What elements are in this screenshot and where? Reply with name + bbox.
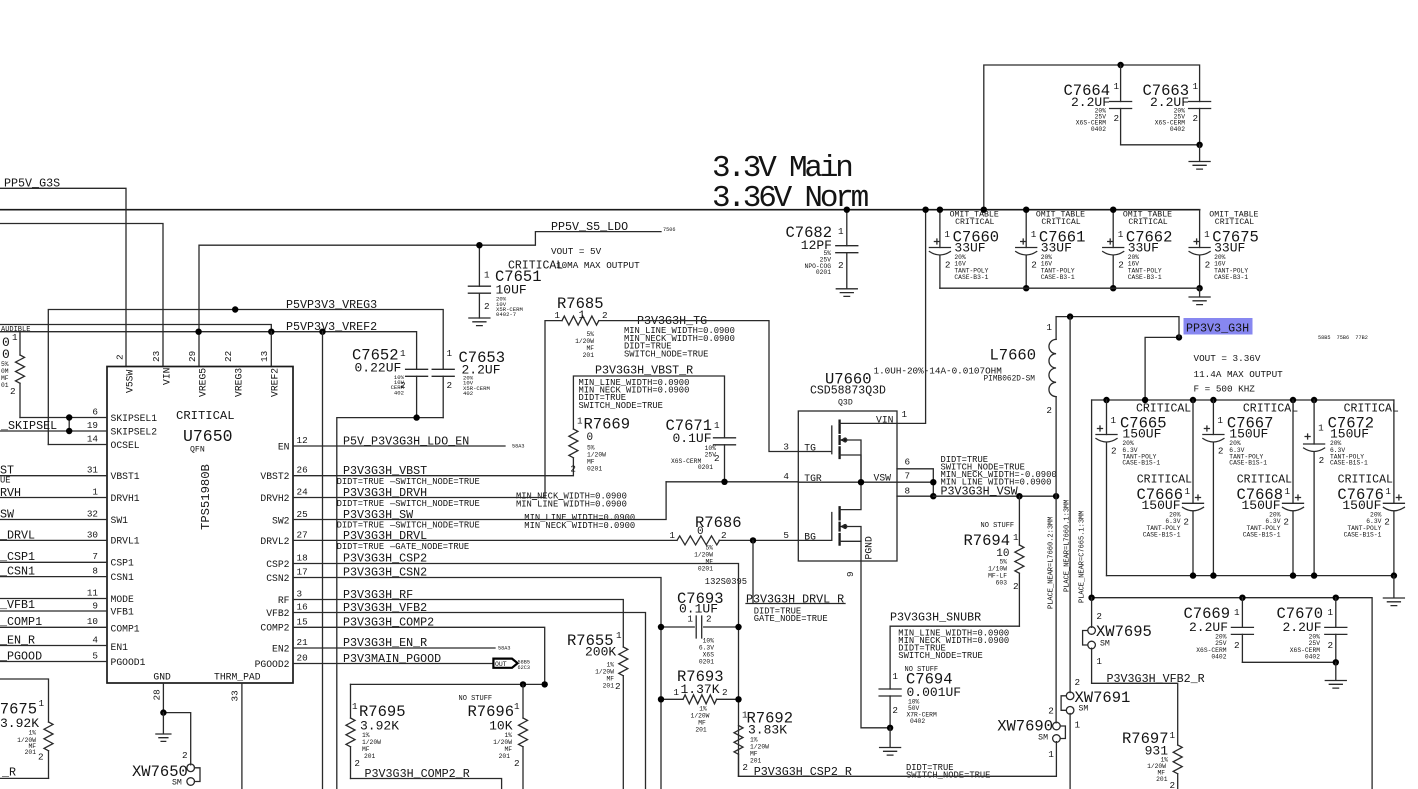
svg-text:CASE-B1S-1: CASE-B1S-1 xyxy=(1143,532,1181,539)
svg-text:MODE: MODE xyxy=(111,594,134,605)
svg-text:2: 2 xyxy=(742,762,748,773)
wire VFB2 row xyxy=(293,613,646,789)
svg-text:PGND: PGND xyxy=(864,536,875,559)
svg-text:1: 1 xyxy=(669,530,675,541)
svg-text:XW7695: XW7695 xyxy=(1096,623,1152,641)
port OUT flag xyxy=(493,659,530,671)
svg-text:GATE_NODE=TRUE: GATE_NODE=TRUE xyxy=(754,614,828,624)
svg-text:CRITICAL: CRITICAL xyxy=(1344,402,1399,415)
svg-text:2: 2 xyxy=(570,464,576,475)
svg-text:NO STUFF: NO STUFF xyxy=(981,522,1015,530)
testpoint XW7695 xyxy=(1083,598,1152,684)
wire SKIPSEL1 row xyxy=(20,417,107,419)
svg-text:1: 1 xyxy=(514,701,520,712)
svg-text:CSD58873Q3D: CSD58873Q3D xyxy=(810,385,886,398)
svg-text:VBST1: VBST1 xyxy=(111,471,140,482)
svg-text:150UF: 150UF xyxy=(1229,426,1268,441)
capacitor C7666 xyxy=(1136,400,1203,576)
svg-text:VIN: VIN xyxy=(162,367,173,385)
svg-text:33: 33 xyxy=(230,690,241,701)
wire C7664/C7663 bottom xyxy=(1121,144,1200,146)
capacitor C7676 xyxy=(1337,400,1404,576)
svg-text:0201: 0201 xyxy=(816,269,831,276)
svg-text:0402: 0402 xyxy=(1305,654,1320,661)
svg-text:150UF: 150UF xyxy=(1330,426,1369,441)
svg-text:1%: 1% xyxy=(606,662,614,669)
svg-text:CRITICAL: CRITICAL xyxy=(1136,402,1191,415)
svg-text:MF: MF xyxy=(606,676,614,683)
svg-text:SWITCH_NODE=TRUE: SWITCH_NODE=TRUE xyxy=(624,349,708,359)
wire skipsel jumper xyxy=(68,418,70,432)
svg-text:8: 8 xyxy=(905,486,911,497)
svg-text:22: 22 xyxy=(223,351,234,362)
svg-text:1: 1 xyxy=(1013,532,1019,543)
svg-text:2: 2 xyxy=(1170,780,1176,789)
svg-text:2: 2 xyxy=(714,453,720,464)
svg-text:NO STUFF: NO STUFF xyxy=(459,695,493,703)
svg-text:MF: MF xyxy=(1,375,9,382)
wire VREF2 riser to IC xyxy=(270,332,272,367)
svg-text:10%: 10% xyxy=(703,638,715,645)
resistor R7675 xyxy=(0,679,53,778)
svg-text:132S0395: 132S0395 xyxy=(705,577,747,587)
svg-text:150UF: 150UF xyxy=(1122,426,1161,441)
svg-text:2: 2 xyxy=(1384,517,1390,528)
wire VSW bracket xyxy=(897,469,933,496)
svg-text:29: 29 xyxy=(187,351,198,362)
svg-text:1: 1 xyxy=(447,348,453,359)
wire main 3.3V rail xyxy=(0,209,1200,211)
wire PGND xyxy=(861,561,890,728)
svg-text:DRVL2: DRVL2 xyxy=(260,536,289,547)
testpoint XW7650 xyxy=(132,750,200,788)
svg-text:2: 2 xyxy=(1193,113,1199,124)
svg-text:2: 2 xyxy=(1111,446,1117,457)
svg-text:P3V3G3H_SNUBR: P3V3G3H_SNUBR xyxy=(890,610,981,624)
svg-text:2: 2 xyxy=(721,530,727,541)
wire CSN2 row xyxy=(293,578,661,789)
svg-text:2: 2 xyxy=(514,758,520,769)
svg-text:11.4A MAX OUTPUT: 11.4A MAX OUTPUT xyxy=(1194,369,1284,380)
wire VBST row xyxy=(293,458,573,476)
svg-text:5%: 5% xyxy=(587,445,595,452)
svg-text:603: 603 xyxy=(996,580,1008,587)
svg-text:X6S-CERM: X6S-CERM xyxy=(671,458,701,465)
svg-text:6.3V: 6.3V xyxy=(699,645,714,652)
ground GND pin xyxy=(156,713,171,742)
testpoint XW7690 xyxy=(997,706,1065,761)
capacitor C7665 xyxy=(1096,400,1191,576)
svg-text:CSP1: CSP1 xyxy=(111,558,134,569)
svg-text:0201: 0201 xyxy=(698,464,713,471)
svg-text:VFB1: VFB1 xyxy=(111,607,134,618)
wire SW row xyxy=(293,482,666,520)
svg-text:1: 1 xyxy=(1170,730,1176,741)
capacitor C7663 xyxy=(1142,81,1210,145)
resistor R7695 xyxy=(346,684,406,778)
svg-text:2: 2 xyxy=(722,687,728,698)
svg-text:1: 1 xyxy=(1217,415,1223,426)
svg-text:CASE-B1S-1: CASE-B1S-1 xyxy=(1330,460,1368,467)
svg-text:7: 7 xyxy=(92,551,98,562)
wire BG row xyxy=(719,539,798,541)
svg-text:SW1: SW1 xyxy=(111,515,129,526)
capacitor C7694 xyxy=(879,666,961,731)
dual MOSFET U7660 CSD58873Q3D xyxy=(783,370,910,577)
wire DRVH row xyxy=(293,497,545,499)
svg-text:32: 32 xyxy=(87,509,98,520)
svg-text:58A3: 58A3 xyxy=(498,646,510,652)
svg-text:1: 1 xyxy=(687,614,693,625)
svg-text:SM: SM xyxy=(1079,705,1089,714)
svg-text:TPS51980B: TPS51980B xyxy=(199,464,213,530)
resistor R7692 xyxy=(734,710,793,777)
svg-text:_VFB1: _VFB1 xyxy=(0,598,35,612)
node PP3V3_G3H xyxy=(1179,318,1368,341)
svg-text:62C3: 62C3 xyxy=(518,665,530,671)
svg-text:CRITICAL: CRITICAL xyxy=(1237,474,1292,487)
svg-text:5: 5 xyxy=(783,530,789,541)
svg-text:0: 0 xyxy=(697,526,704,538)
svg-text:1: 1 xyxy=(12,332,18,343)
svg-text:21: 21 xyxy=(297,637,309,648)
svg-text:COMP1: COMP1 xyxy=(111,623,140,634)
svg-text:1: 1 xyxy=(902,409,908,420)
svg-text:PP3V3_G3H: PP3V3_G3H xyxy=(1186,322,1249,336)
svg-text:CASE-B1S-1: CASE-B1S-1 xyxy=(1229,460,1267,467)
svg-text:0402-7: 0402-7 xyxy=(496,311,516,318)
wire TGR row xyxy=(666,481,798,483)
wire MODE row xyxy=(0,598,107,600)
wire VSW internal xyxy=(798,481,897,483)
svg-text:VBST2: VBST2 xyxy=(260,471,289,482)
svg-text:01: 01 xyxy=(1,382,9,389)
wire PP3V3 top link xyxy=(1056,317,1179,400)
svg-text:PLACE_NEAR=C7665.1:3MM: PLACE_NEAR=C7665.1:3MM xyxy=(1079,511,1087,603)
svg-text:1: 1 xyxy=(1096,656,1102,667)
svg-text:1/20W: 1/20W xyxy=(362,739,381,746)
svg-text:1.37K: 1.37K xyxy=(681,682,720,697)
svg-text:2: 2 xyxy=(484,301,490,312)
testpoint XW7691 xyxy=(1061,677,1130,789)
wire PP5V_S5_LDO xyxy=(199,232,661,367)
svg-text:2: 2 xyxy=(838,260,844,271)
svg-text:2: 2 xyxy=(1118,260,1124,271)
svg-text:1: 1 xyxy=(1185,486,1191,497)
svg-text:PGOOD2: PGOOD2 xyxy=(255,659,290,670)
wire VSW net xyxy=(933,495,1056,497)
svg-text:1: 1 xyxy=(1234,607,1240,618)
svg-text:1: 1 xyxy=(1285,486,1291,497)
svg-text:2: 2 xyxy=(1096,611,1102,622)
svg-text:9: 9 xyxy=(845,571,856,577)
svg-text:201: 201 xyxy=(695,727,707,734)
capacitor C7662 xyxy=(1103,207,1173,292)
wire EN row xyxy=(293,445,505,447)
svg-text:L7660: L7660 xyxy=(990,347,1037,365)
svg-text:—GATE_NODE=TRUE: —GATE_NODE=TRUE xyxy=(389,542,469,552)
svg-text:R7669: R7669 xyxy=(584,416,631,434)
svg-text:CRITICAL: CRITICAL xyxy=(176,409,235,423)
resistor R7685 xyxy=(545,295,608,498)
svg-text:SM: SM xyxy=(1038,734,1048,743)
svg-text:VOUT = 5V: VOUT = 5V xyxy=(551,246,602,257)
svg-text:2: 2 xyxy=(1218,446,1224,457)
capacitor C7667 xyxy=(1203,400,1298,576)
capacitor C7652 xyxy=(352,346,428,417)
wire SKIPSEL2 row xyxy=(0,430,107,432)
capacitor C7672 xyxy=(1304,400,1399,576)
svg-text:VREF2: VREF2 xyxy=(270,368,281,397)
svg-text:1: 1 xyxy=(1118,229,1124,240)
svg-text:0201: 0201 xyxy=(587,466,602,473)
wire CSP2_R xyxy=(739,742,1057,777)
svg-text:CRITICAL: CRITICAL xyxy=(1243,402,1298,415)
svg-text:31: 31 xyxy=(87,465,99,476)
wire DRVL1 row xyxy=(0,539,107,541)
svg-text:2: 2 xyxy=(38,752,44,763)
wire COMP2 network top xyxy=(351,683,545,685)
ground C7694 xyxy=(880,728,901,755)
svg-text:30: 30 xyxy=(87,530,98,541)
svg-text:1: 1 xyxy=(92,487,98,498)
svg-text:27: 27 xyxy=(297,530,308,541)
svg-text:CSN2: CSN2 xyxy=(266,573,289,584)
svg-text:0: 0 xyxy=(587,432,594,444)
svg-text:11: 11 xyxy=(87,588,99,599)
svg-text:SM: SM xyxy=(172,779,182,788)
resistor R7693 xyxy=(658,668,742,734)
svg-text:V5SW: V5SW xyxy=(125,370,136,393)
resistor R7694 xyxy=(964,496,1024,626)
wire C7669/C7670 top xyxy=(1092,598,1373,789)
wire cap bottom bus xyxy=(337,418,443,789)
wire crossnet xyxy=(0,325,271,332)
svg-text:MF: MF xyxy=(587,459,595,466)
svg-text:2: 2 xyxy=(1114,113,1120,124)
svg-text:CRITICAL: CRITICAL xyxy=(1215,218,1254,227)
svg-text:PIMB062D-SM: PIMB062D-SM xyxy=(984,376,1036,384)
svg-text:5%: 5% xyxy=(586,331,594,338)
svg-text:0201: 0201 xyxy=(699,659,714,666)
svg-text:10MA MAX OUTPUT: 10MA MAX OUTPUT xyxy=(556,260,640,271)
svg-text:SKIPSEL2: SKIPSEL2 xyxy=(111,426,158,437)
wire P5VP3V3_VREG3 xyxy=(48,310,443,445)
svg-text:1/20W: 1/20W xyxy=(493,739,512,746)
svg-text:1: 1 xyxy=(616,630,622,641)
svg-text:SWITCH_NODE=TRUE: SWITCH_NODE=TRUE xyxy=(906,771,990,781)
svg-text:1: 1 xyxy=(1075,720,1081,731)
svg-text:CASE-B1S-1: CASE-B1S-1 xyxy=(1122,460,1160,467)
svg-text:2: 2 xyxy=(1205,260,1211,271)
svg-text:1%: 1% xyxy=(28,730,36,737)
svg-text:CASE-B1S-1: CASE-B1S-1 xyxy=(1344,532,1382,539)
svg-text:THRM_PAD: THRM_PAD xyxy=(214,672,261,683)
svg-text:2: 2 xyxy=(447,380,453,391)
svg-text:4: 4 xyxy=(783,471,789,482)
wire CSN1 row xyxy=(0,576,107,578)
ground C7682 xyxy=(836,289,857,297)
svg-text:DRVH2: DRVH2 xyxy=(260,493,289,504)
wire DRVH1 row xyxy=(0,497,107,499)
svg-text:1: 1 xyxy=(1193,81,1199,92)
svg-text:1: 1 xyxy=(673,687,679,698)
svg-text:X6S: X6S xyxy=(703,652,715,659)
capacitor C7664 xyxy=(1063,65,1131,145)
svg-text:1/20W: 1/20W xyxy=(587,452,606,459)
wire GND pin 28 xyxy=(163,683,190,765)
svg-text:1: 1 xyxy=(1048,749,1054,760)
ground 33UF bus xyxy=(1189,288,1210,304)
svg-text:1: 1 xyxy=(579,310,586,322)
svg-text:MF: MF xyxy=(504,746,512,753)
svg-text:PGOOD1: PGOOD1 xyxy=(111,657,146,668)
svg-text:2: 2 xyxy=(1075,677,1081,688)
svg-text:OCSEL: OCSEL xyxy=(111,440,140,451)
svg-text:1%: 1% xyxy=(362,732,370,739)
svg-text:VREG5: VREG5 xyxy=(198,368,209,397)
svg-text:EN1: EN1 xyxy=(111,642,129,653)
svg-text:2: 2 xyxy=(1234,640,1240,651)
resistor R7686 xyxy=(669,514,747,587)
svg-text:CSP2: CSP2 xyxy=(266,559,289,570)
svg-text:PLACE_NEAR=L7660.1:3MM: PLACE_NEAR=L7660.1:3MM xyxy=(1064,500,1072,592)
svg-text:18: 18 xyxy=(297,553,308,564)
svg-text:26: 26 xyxy=(297,465,308,476)
wire COMP2_R xyxy=(351,779,502,789)
svg-text:3: 3 xyxy=(783,442,789,453)
svg-text:EN2: EN2 xyxy=(272,643,290,654)
svg-text:1%: 1% xyxy=(504,732,512,739)
svg-text:1/20W: 1/20W xyxy=(691,713,710,720)
svg-text:1: 1 xyxy=(1385,486,1391,497)
svg-text:DRVH1: DRVH1 xyxy=(111,493,140,504)
svg-text:2: 2 xyxy=(945,260,951,271)
svg-text:2: 2 xyxy=(182,750,188,761)
svg-text:2: 2 xyxy=(1319,455,1325,466)
svg-text:1: 1 xyxy=(1318,423,1324,434)
svg-text:P3V3G3H_DRVL_R: P3V3G3H_DRVL_R xyxy=(746,592,844,606)
svg-text:SM: SM xyxy=(1100,640,1110,649)
svg-text:SWITCH_NODE=TRUE: SWITCH_NODE=TRUE xyxy=(898,651,982,661)
svg-text:58A3: 58A3 xyxy=(512,444,524,450)
wire SW1 row xyxy=(0,519,107,521)
svg-text:1: 1 xyxy=(1031,229,1037,240)
svg-text:201: 201 xyxy=(499,753,511,760)
svg-text:EN: EN xyxy=(278,441,290,452)
svg-text:MF: MF xyxy=(750,751,758,758)
svg-text:1/20W: 1/20W xyxy=(750,744,769,751)
svg-text:58B5 75B6 77B2: 58B5 75B6 77B2 xyxy=(1318,335,1368,341)
svg-text:1: 1 xyxy=(577,416,583,427)
svg-text:2: 2 xyxy=(1013,581,1019,592)
ground 150UF bus xyxy=(1383,576,1404,606)
svg-text:402: 402 xyxy=(463,390,473,397)
svg-text:CASE-B3-1: CASE-B3-1 xyxy=(954,274,988,281)
svg-text:2: 2 xyxy=(1183,517,1189,528)
svg-text:1: 1 xyxy=(838,226,844,237)
ground C7663 xyxy=(1189,145,1210,169)
IC U7650 TPS51980B xyxy=(87,351,308,702)
svg-text:CRITICAL: CRITICAL xyxy=(1041,218,1080,227)
resistor R7655 xyxy=(567,630,628,789)
svg-text:201: 201 xyxy=(1156,776,1168,783)
svg-text:24: 24 xyxy=(297,487,309,498)
capacitor C7651 xyxy=(468,242,640,318)
svg-text:MF: MF xyxy=(698,720,706,727)
wire long vertical A xyxy=(322,332,324,789)
svg-text:201: 201 xyxy=(364,753,376,760)
svg-text:5%: 5% xyxy=(1,361,9,368)
svg-text:CRITICAL: CRITICAL xyxy=(1128,218,1167,227)
wire VIN feed xyxy=(0,224,163,367)
svg-text:SKIPSEL1: SKIPSEL1 xyxy=(111,413,158,424)
svg-text:5%: 5% xyxy=(705,545,713,552)
svg-text:200K: 200K xyxy=(585,645,616,660)
resistor R7697 xyxy=(1122,730,1182,789)
svg-text:MF-LF: MF-LF xyxy=(988,573,1007,580)
svg-text:CRITICAL: CRITICAL xyxy=(1338,474,1393,487)
svg-text:VFB2: VFB2 xyxy=(266,608,289,619)
svg-text:10: 10 xyxy=(87,616,98,627)
svg-text:0201: 0201 xyxy=(698,566,713,573)
svg-text:0402: 0402 xyxy=(1170,126,1185,133)
svg-text:QFN: QFN xyxy=(190,446,205,455)
svg-text:2: 2 xyxy=(400,380,406,391)
wire VIN riser xyxy=(897,210,926,424)
svg-text:3.83K: 3.83K xyxy=(748,723,787,738)
svg-text:20: 20 xyxy=(297,653,308,664)
capacitor C7670 xyxy=(1276,598,1346,663)
svg-text:DIDT=TRUE: DIDT=TRUE xyxy=(337,542,385,552)
wire P5VP3V3_VREF2 xyxy=(0,332,417,370)
svg-text:1: 1 xyxy=(714,420,720,431)
svg-text:6: 6 xyxy=(905,457,911,468)
wire COMP1 row xyxy=(0,626,107,628)
svg-text:VREG3: VREG3 xyxy=(234,368,245,397)
svg-text:CASE-B1S-1: CASE-B1S-1 xyxy=(1243,532,1281,539)
transistor QA (high side) xyxy=(798,426,832,454)
svg-text:1: 1 xyxy=(1204,229,1210,240)
inductor L7660 xyxy=(874,317,1057,723)
svg-text:MIN‾NECK‾WIDTH=0.0900: MIN‾NECK‾WIDTH=0.0900 xyxy=(524,521,635,531)
svg-text:19: 19 xyxy=(87,420,98,431)
svg-text:7506: 7506 xyxy=(663,227,675,233)
svg-text:Q3D: Q3D xyxy=(838,399,853,408)
svg-text:201: 201 xyxy=(603,683,615,690)
capacitor C7669 xyxy=(1183,598,1253,663)
svg-text:1: 1 xyxy=(1114,81,1120,92)
svg-text:9: 9 xyxy=(92,601,98,612)
svg-text:CASE-B3-1: CASE-B3-1 xyxy=(1214,274,1248,281)
wire CSP1 row xyxy=(0,561,107,563)
svg-text:1: 1 xyxy=(1111,415,1117,426)
svg-text:MIN‾LINE‾WIDTH=0.0900: MIN‾LINE‾WIDTH=0.0900 xyxy=(516,499,627,509)
svg-text:2: 2 xyxy=(706,614,712,625)
svg-text:GND: GND xyxy=(153,672,171,683)
svg-text:201: 201 xyxy=(750,758,762,765)
svg-text:1: 1 xyxy=(944,229,950,240)
svg-text:16: 16 xyxy=(297,602,308,613)
wire EN1 row xyxy=(0,645,107,647)
capacitor C7693 xyxy=(658,590,742,666)
svg-text:0.1UF: 0.1UF xyxy=(673,431,712,446)
wire VFB1 row xyxy=(0,610,107,612)
wire DRVL row to R7686 xyxy=(293,539,677,541)
svg-text:2: 2 xyxy=(1046,405,1052,416)
svg-text:25: 25 xyxy=(297,509,308,520)
wire VFB2_R xyxy=(1092,683,1178,745)
